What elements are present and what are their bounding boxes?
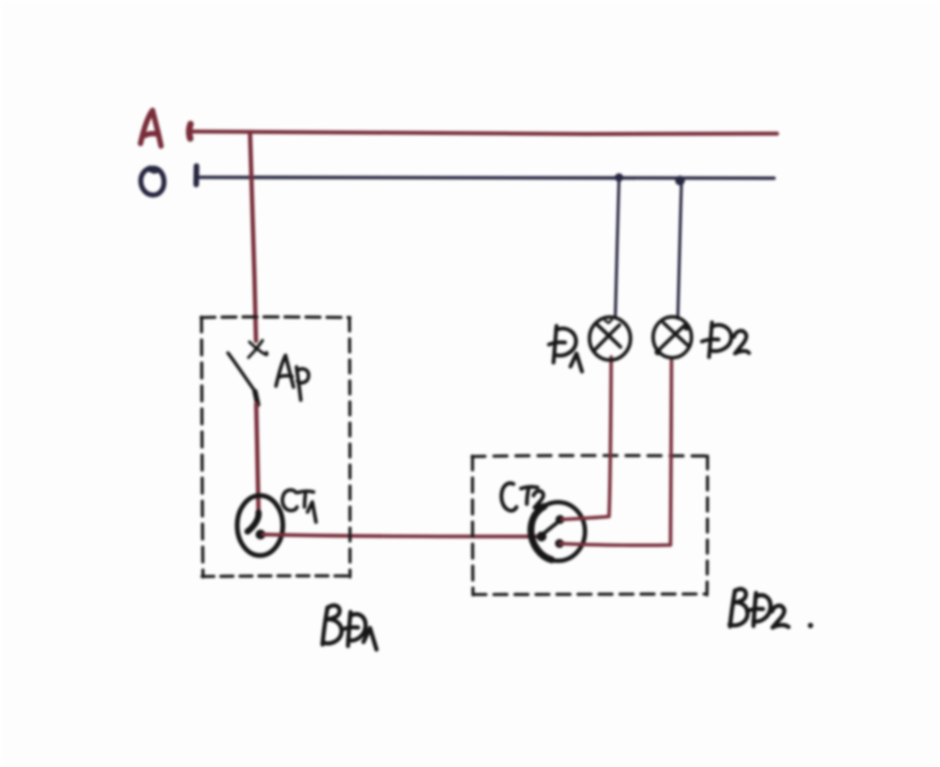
label BD2: [730, 589, 789, 627]
switch ST2 contact dot left: [537, 532, 547, 542]
switch ST2 contact dot lower: [555, 539, 564, 548]
node A label: [141, 111, 162, 147]
wire: ST2 upper contact to lamp L1: [562, 357, 611, 520]
lamp L2 cross stroke 1: [664, 323, 688, 345]
neutral line O start tick: [193, 166, 199, 185]
wire: ST1 to ST2: [263, 535, 541, 537]
distribution box BD2 dashed border: left: [471, 456, 475, 595]
period after BD2: [808, 623, 813, 628]
distribution box BD2 dashed border: bottom: [473, 592, 707, 596]
lamp L2 body: [653, 317, 691, 358]
label Ap: [276, 356, 309, 401]
switch ST2 moving contact blade: [543, 522, 558, 534]
distribution box BD1 dashed border: left: [202, 317, 204, 577]
distribution box BD1 dashed border: top: [201, 315, 350, 319]
switch ST2 body circle thickened left arc: [531, 507, 552, 560]
lamp L2 pen dot upper right: [683, 324, 689, 330]
distribution box BD2 dashed border: top: [472, 456, 708, 457]
distribution box BD1 dashed border: right: [348, 318, 352, 577]
lamp L1 body: [590, 317, 631, 360]
distribution box BD2 dashed border: right: [705, 456, 709, 595]
lamp L2 pen blob lower left: [655, 349, 662, 356]
lamp L1 cross stroke 2: [595, 325, 620, 350]
label L2: [702, 323, 749, 358]
junction dot on O line for lamp L1: [615, 173, 624, 182]
label ST2: [501, 483, 545, 511]
node O label inner pen hook: [151, 171, 158, 173]
wire: switch Ap down to switch ST1: [256, 404, 258, 512]
wire: phase A down to switch Ap: [250, 132, 256, 341]
wire: O line to lamp L2: [678, 182, 682, 319]
phase line A start tick: [189, 124, 190, 139]
label L1: [549, 326, 582, 372]
distribution box BD1 dashed border: bottom: [202, 574, 350, 578]
lamp L2 cross stroke 2: [657, 326, 684, 352]
lamp L1 cross stroke 1: [597, 325, 621, 348]
junction dot on O line for lamp L2: [675, 176, 685, 186]
lamp L1 top notch: [605, 320, 612, 323]
switch ST1 body circle: [237, 496, 283, 556]
label ST1: [282, 490, 316, 522]
switch ST2 body circle: [531, 502, 585, 561]
switch ST2 contact dot upper: [556, 515, 565, 524]
switch Ap: blade: [228, 353, 255, 391]
phase line A: [193, 132, 777, 135]
switch Ap: x terminal mark: [249, 341, 268, 358]
switch Ap: lower contact stub: [255, 392, 258, 405]
neutral line O: [196, 177, 774, 178]
wire: ST2 lower contact to lamp L2: [560, 361, 672, 546]
wire: O line to lamp L1: [615, 179, 619, 319]
switch ST1 moving contact: [248, 513, 259, 532]
switch ST1 fixed contact dot: [256, 530, 266, 540]
label BD1: [323, 605, 377, 649]
node O label: [141, 168, 164, 195]
